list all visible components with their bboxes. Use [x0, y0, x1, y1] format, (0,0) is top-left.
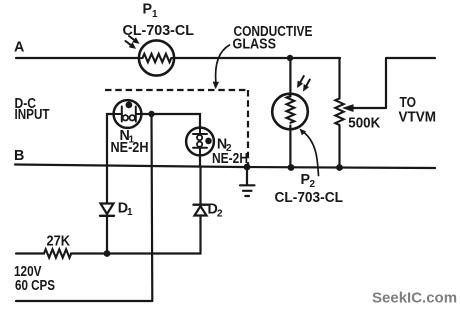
svg-text:P: P [143, 2, 153, 18]
svg-text:B: B [14, 148, 24, 164]
svg-text:VTVM: VTVM [399, 110, 437, 126]
svg-text:CL-703-CL: CL-703-CL [123, 23, 195, 39]
svg-text:2: 2 [310, 179, 316, 190]
svg-text:NE-2H: NE-2H [111, 140, 149, 156]
svg-text:27K: 27K [47, 234, 71, 250]
svg-text:GLASS: GLASS [233, 36, 277, 52]
svg-text:500K: 500K [348, 116, 381, 132]
svg-text:A: A [14, 40, 24, 56]
svg-text:1: 1 [152, 9, 158, 20]
svg-text:SeekIC.com: SeekIC.com [372, 289, 457, 306]
svg-text:2: 2 [217, 209, 223, 220]
svg-text:CL-703-CL: CL-703-CL [275, 190, 344, 206]
svg-text:1: 1 [127, 207, 133, 218]
svg-text:60 CPS: 60 CPS [15, 278, 55, 294]
svg-text:NE-2H: NE-2H [212, 151, 248, 167]
svg-text:INPUT: INPUT [15, 107, 50, 123]
